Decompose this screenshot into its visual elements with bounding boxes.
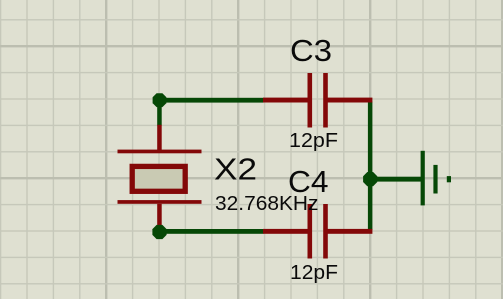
capacitor C3 right pin xyxy=(328,98,373,103)
capacitor C4 left pin xyxy=(263,229,308,234)
capacitor C3 left pin xyxy=(263,98,308,103)
svg-text:12pF: 12pF xyxy=(289,129,338,152)
crystal X2 bottom electrode plate xyxy=(118,200,202,204)
node junction dot at crystal bottom xyxy=(152,225,166,239)
capacitor C3 left plate xyxy=(308,73,313,128)
capacitor C4 right plate xyxy=(323,204,328,259)
ground symbol middle bar xyxy=(433,165,437,194)
node junction dot at ground tap xyxy=(363,172,377,186)
capacitor C3 right plate xyxy=(323,73,328,128)
capacitor C4 right pin xyxy=(328,229,373,234)
crystal X2 top pin (red part) xyxy=(157,125,162,153)
ground symbol small bar xyxy=(447,176,451,182)
wire: right vertical net joining C3 and C4 right pins xyxy=(368,102,373,231)
svg-text:12pF: 12pF xyxy=(290,261,338,284)
svg-text:X2: X2 xyxy=(214,151,257,186)
ground symbol tall bar xyxy=(421,151,425,206)
wire: bottom horizontal net, crystal bottom node to C4 left pin xyxy=(160,229,264,234)
crystal X2 body xyxy=(132,166,185,191)
svg-text:C3: C3 xyxy=(290,33,332,68)
crystal X2 bottom pin xyxy=(157,204,162,226)
node junction dot at crystal top xyxy=(153,93,167,107)
svg-text:C4: C4 xyxy=(288,164,329,199)
capacitor C4 left plate xyxy=(308,204,313,259)
wire: green stub from top node down to crystal top pin xyxy=(157,100,162,126)
crystal X2 top electrode plate xyxy=(118,150,202,154)
wire: ground stub from right net to ground symbol xyxy=(370,177,421,182)
wire: top horizontal net, crystal top node to C3 left pin xyxy=(160,98,264,103)
